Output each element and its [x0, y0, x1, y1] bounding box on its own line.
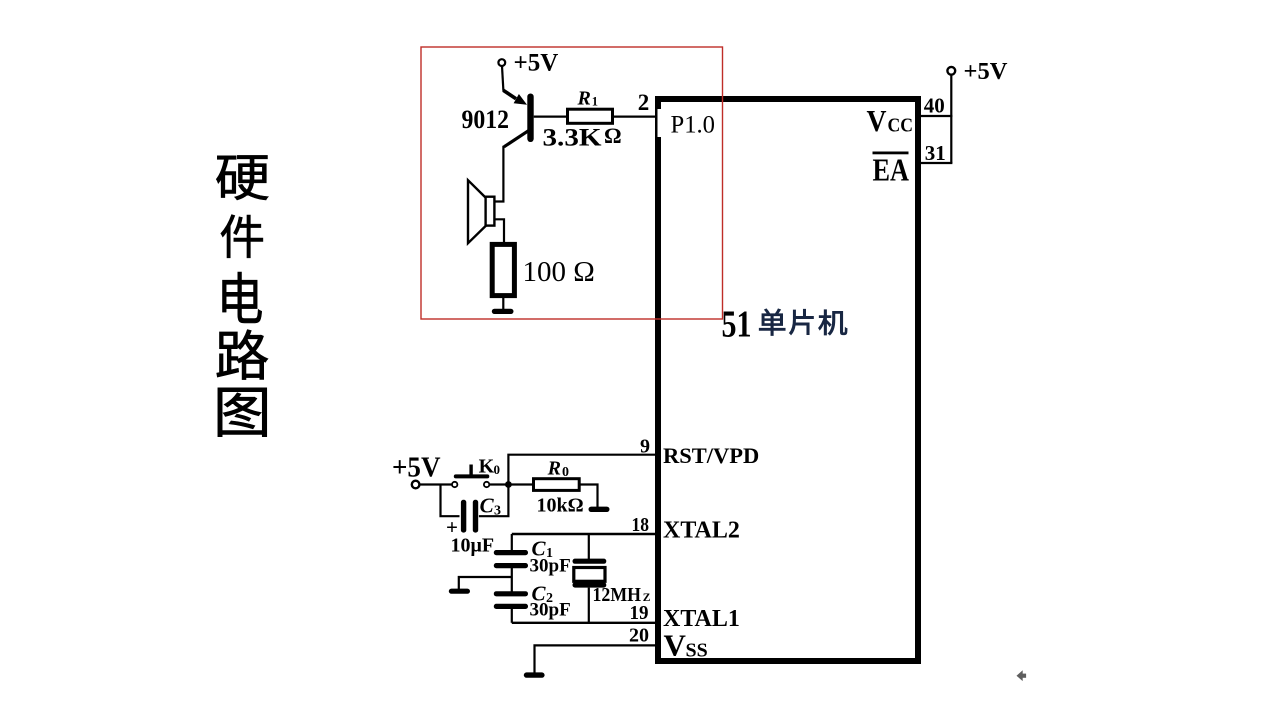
ground (R0 branch) [589, 507, 610, 512]
capacitor C2 top plate [494, 591, 528, 596]
svg-text:+5V: +5V [514, 50, 559, 77]
title char 电 [222, 272, 261, 323]
capacitor C1 top plate [494, 550, 528, 555]
svg-text:C: C [480, 494, 495, 518]
+5V terminal (VCC supply) [947, 67, 955, 75]
crystal Y1 top plate [573, 559, 607, 564]
capacitor C3 left plate [461, 500, 466, 533]
title char 硬 [216, 155, 268, 200]
svg-text:30pF: 30pF [530, 556, 571, 577]
wire speaker to resistor [494, 219, 504, 245]
svg-text:2: 2 [638, 90, 650, 115]
wire pin 20 VSS to ground [535, 645, 659, 673]
svg-text:RST/VPD: RST/VPD [663, 443, 759, 468]
capacitor C2 bottom plate [494, 604, 528, 609]
speaker LS1 driver [486, 197, 495, 226]
node A junction dot [505, 481, 512, 488]
svg-text:18: 18 [632, 514, 650, 536]
wire rail to crystal top [588, 534, 590, 559]
resistor 100Ω body [492, 244, 514, 295]
svg-text:EA: EA [873, 152, 910, 188]
wire pin 18 XTAL2 rail [512, 533, 658, 535]
crystal Y1 body [574, 568, 605, 582]
switch K0 actuator stub [469, 465, 472, 475]
wire to ground (C1/C2 node) [459, 577, 512, 589]
resistor R1 body [568, 109, 613, 123]
svg-text:51: 51 [722, 303, 752, 345]
wire pin 19 XTAL1 rail [512, 622, 658, 624]
MCU U1 51 microcontroller box [658, 99, 918, 661]
wire base to P1.0 pin 2 [534, 115, 658, 117]
svg-text:10μF: 10μF [451, 535, 495, 557]
svg-text:1: 1 [592, 95, 598, 109]
P1.0 white patch [658, 109, 718, 137]
ground (C1/C2 node) [449, 589, 470, 594]
wire +5V to emitter [502, 66, 503, 91]
svg-text:Z: Z [643, 592, 651, 604]
red highlight box [421, 47, 723, 319]
svg-text:0: 0 [494, 462, 501, 477]
transistor Q1 emitter line [503, 90, 516, 99]
wire crystal to pin 19 rail [588, 588, 590, 623]
wire R0 to ground [579, 485, 597, 508]
wire node A to R0 [510, 483, 534, 485]
ground (speaker branch) [492, 309, 514, 314]
switch K0 left contact [452, 482, 457, 487]
gray cursor artifact [1017, 670, 1027, 681]
label char 机 [819, 310, 847, 335]
title char 路 [217, 330, 268, 380]
svg-text:12MH: 12MH [593, 585, 642, 606]
svg-text:0: 0 [562, 465, 569, 480]
svg-text:20: 20 [629, 625, 649, 647]
wire +5V to C3 [441, 485, 460, 517]
label char 片 [789, 309, 813, 334]
svg-text:40: 40 [924, 94, 945, 118]
wire +5V down [950, 75, 952, 163]
wire switch to node A [489, 483, 506, 485]
+5V terminal (transistor emitter supply) [498, 59, 505, 66]
wire terminal to switch [419, 483, 452, 485]
svg-text:XTAL2: XTAL2 [663, 518, 740, 544]
svg-text:+5V: +5V [392, 452, 441, 484]
+5V terminal (reset) [412, 481, 420, 489]
transistor Q1 collector line [504, 130, 530, 147]
wire collector to speaker [494, 146, 503, 202]
wire resistor to ground [502, 296, 504, 310]
wire pin 31 EA [921, 162, 952, 164]
svg-text:V: V [867, 103, 888, 138]
svg-text:CC: CC [888, 115, 914, 137]
switch K0 right contact [484, 482, 489, 487]
wire C3 to node A [479, 486, 509, 516]
label char 单 [759, 309, 785, 336]
svg-text:3.3K: 3.3K [543, 123, 602, 152]
ground (VSS) [524, 672, 545, 677]
svg-text:R: R [577, 88, 591, 110]
svg-text:100 Ω: 100 Ω [523, 256, 595, 288]
wire C1 to C2 [511, 568, 513, 592]
svg-text:R: R [547, 458, 561, 480]
wire pin 40 VCC [921, 115, 952, 117]
svg-text:P1.0: P1.0 [671, 112, 716, 139]
resistor R0 body [534, 479, 580, 491]
svg-text:10kΩ: 10kΩ [537, 495, 584, 517]
switch K0 bar [454, 474, 490, 478]
wire node A to pin 9 [508, 455, 658, 485]
svg-text:K: K [479, 456, 495, 478]
EA overline [873, 152, 909, 155]
title char 图 [218, 388, 267, 437]
capacitor C3 right plate [473, 500, 478, 533]
crystal Y1 bottom plate [573, 582, 607, 587]
svg-text:9: 9 [640, 435, 650, 457]
wire C2 to pin 19 rail [511, 609, 513, 623]
svg-text:Ω: Ω [604, 123, 622, 148]
transistor Q1 emitter arrowhead [514, 94, 527, 105]
speaker LS1 horn [468, 180, 486, 243]
capacitor C1 bottom plate [494, 563, 528, 568]
transistor Q1 base bar [527, 94, 533, 143]
svg-text:31: 31 [925, 141, 946, 165]
title char 件 [221, 215, 263, 258]
svg-text:V: V [664, 627, 687, 662]
svg-text:30pF: 30pF [530, 600, 571, 621]
svg-text:SS: SS [686, 640, 708, 662]
wire rail to C1 [511, 534, 513, 551]
svg-text:9012: 9012 [462, 105, 510, 134]
svg-text:+5V: +5V [964, 58, 1008, 85]
